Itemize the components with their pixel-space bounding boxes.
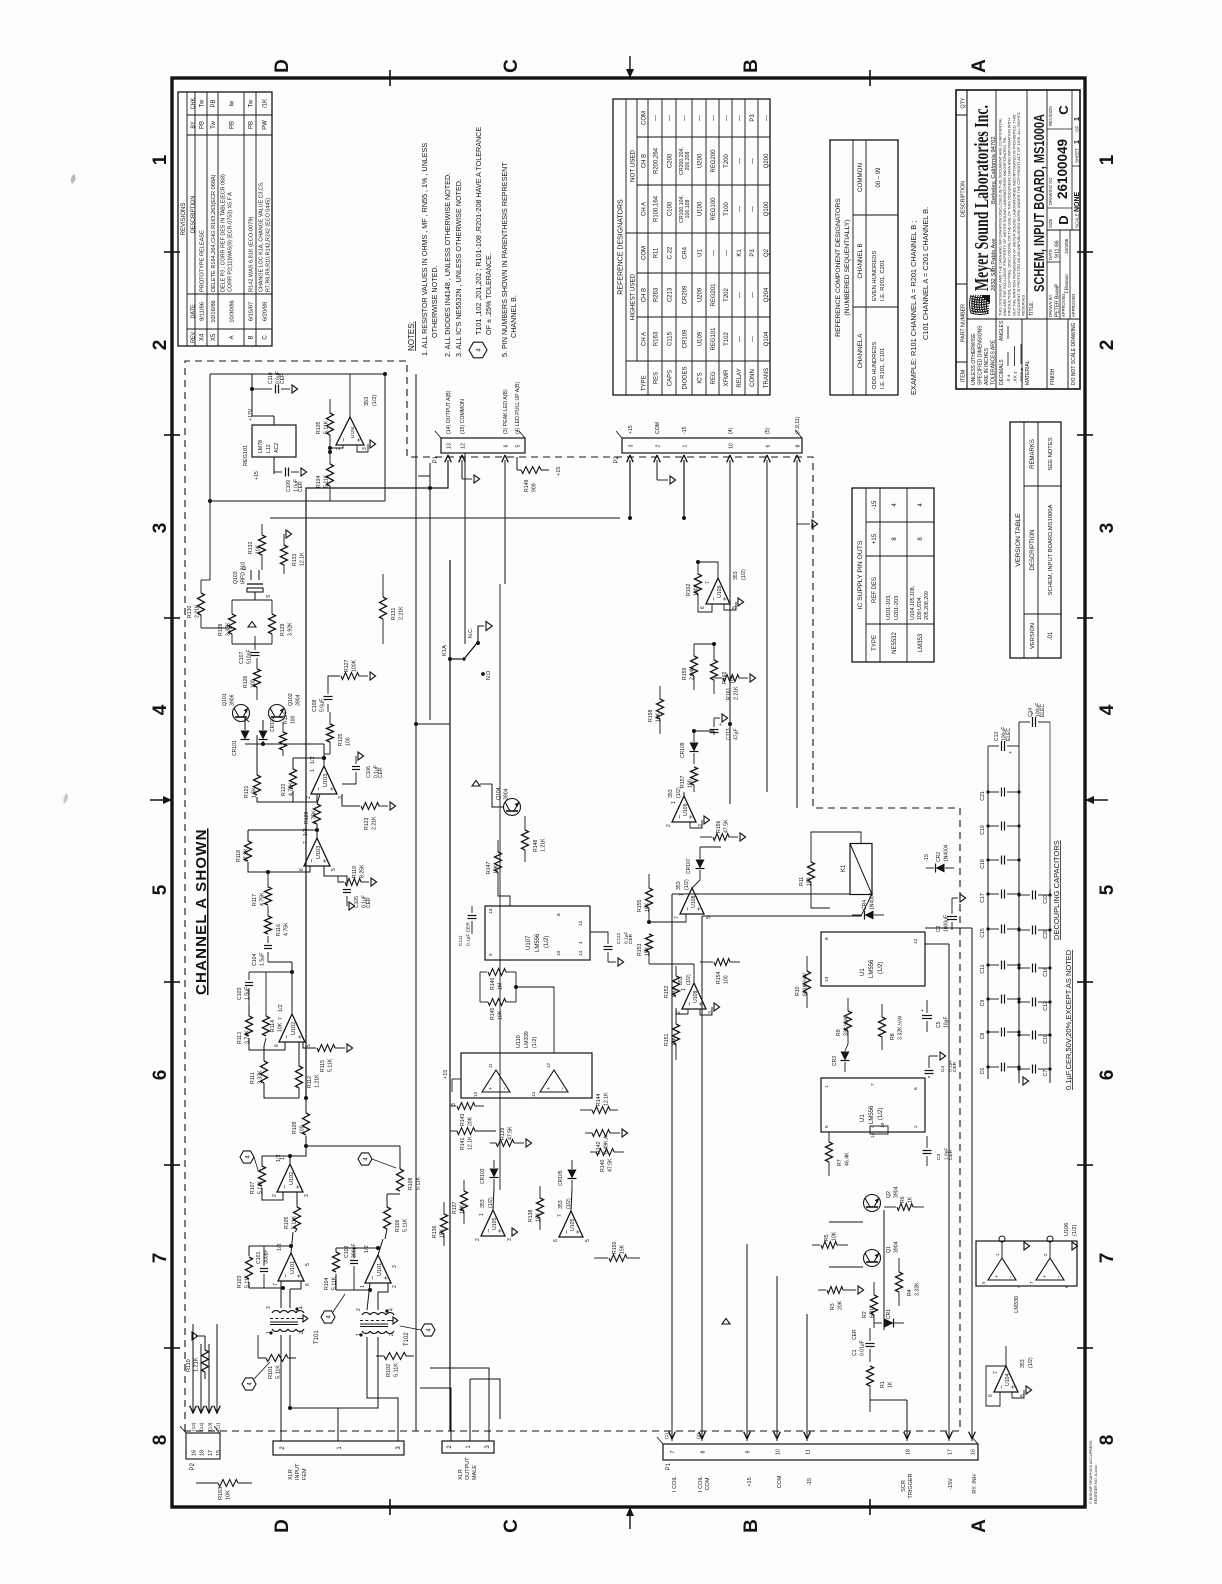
svg-text:C2: C2: [936, 925, 942, 932]
svg-text:1N4004: 1N4004: [944, 844, 950, 862]
svg-text:1/2: 1/2: [310, 756, 316, 764]
resistor R10: [804, 971, 811, 993]
wire K1A to bus: [416, 723, 450, 725]
svg-text:I COIL: I COIL: [698, 1476, 704, 1492]
svg-text:R11: R11: [654, 247, 660, 258]
diode CR101: [245, 757, 324, 759]
resistor R6: [884, 1206, 896, 1208]
resistor R126: [254, 669, 261, 687]
svg-text:T101: T101: [314, 1330, 320, 1344]
bus k1a: [449, 560, 451, 1431]
wire P1-6: [504, 460, 506, 584]
decoupling caps row 2: [1019, 1068, 1030, 1070]
svg-text:C101 CHANNEL A = C201 CHANNEL: C101 CHANNEL A = C201 CHANNEL B.: [921, 207, 930, 340]
output bus to P1-13: [306, 460, 448, 1098]
svg-text:(5): (5): [765, 427, 771, 434]
svg-text:R107: R107: [250, 1181, 256, 1194]
center arrow left: [629, 1507, 631, 1529]
svg-text:REORDER NO. A-xxxx: REORDER NO. A-xxxx: [1094, 1465, 1098, 1504]
svg-text:−: −: [284, 1035, 291, 1039]
svg-text:47.5K: 47.5K: [724, 819, 730, 833]
svg-text:—: —: [764, 115, 770, 121]
svg-text:EXAMPLE: R101 CHANNEL A = R: EXAMPLE: R101 CHANNEL A = R201 CHANNEL B…: [909, 221, 918, 395]
svg-text:1.21K: 1.21K: [315, 1074, 321, 1088]
svg-text:C: C: [501, 59, 522, 73]
svg-text:D: D: [1056, 215, 1071, 224]
svg-text:LM339: LM339: [524, 1031, 530, 1048]
svg-text:1: 1: [280, 1157, 286, 1160]
capacitor C102: [353, 1266, 355, 1290]
svg-text:C: C: [1056, 105, 1071, 115]
svg-text:18: 18: [906, 1449, 912, 1455]
svg-text:+: +: [575, 1230, 582, 1234]
connector P2 pins 15-18: [186, 1433, 220, 1459]
svg-text:D: D: [272, 1519, 293, 1533]
resistor R1: [867, 1366, 874, 1386]
wire p1-16 ry inh: [971, 928, 973, 1441]
svg-text:3904: 3904: [894, 1186, 900, 1198]
transistor Q103 mosfet: [247, 588, 263, 592]
reference component designators table: [830, 140, 898, 395]
svg-text:C5: C5: [936, 1021, 942, 1028]
svg-text:TOLERANCES ARE: TOLERANCES ARE: [991, 339, 997, 385]
wire P2-2 ground: [656, 460, 658, 480]
resistor R149: [521, 467, 541, 474]
svg-text:26100049: 26100049: [1055, 139, 1070, 199]
wire T102 sec to U101b: [367, 1283, 370, 1310]
svg-text:REFERENCE DESIGNATORS: REFERENCE DESIGNATORS: [618, 199, 625, 295]
wire p1-7 i coil: [671, 894, 673, 1441]
svg-text:13: 13: [488, 908, 494, 914]
supply rail box: [209, 374, 211, 501]
resistor R141: [457, 1128, 475, 1135]
svg-text:LM339: LM339: [1014, 1296, 1020, 1313]
svg-text:-15: -15: [872, 500, 878, 509]
svg-text:TRANS: TRANS: [764, 368, 770, 388]
svg-text:R115: R115: [320, 1060, 326, 1072]
svg-text:R156: R156: [716, 820, 722, 833]
svg-text:+: +: [696, 907, 703, 911]
svg-text:R4: R4: [907, 1289, 913, 1296]
svg-text:BY: BY: [191, 121, 197, 129]
svg-text:(1/2): (1/2): [741, 569, 747, 580]
svg-text:PART NUMBER: PART NUMBER: [961, 304, 967, 342]
svg-text:Q204: Q204: [764, 287, 770, 302]
svg-text:R151: R151: [664, 1033, 670, 1046]
capacitor C14: [1019, 721, 1030, 723]
svg-text:RELAY: RELAY: [737, 368, 743, 387]
wire U103a out: [323, 758, 325, 766]
svg-text:U1: U1: [860, 968, 866, 976]
resistor R137: [461, 1191, 468, 1211]
svg-text:B: B: [741, 1519, 762, 1533]
svg-text:PB: PB: [249, 121, 255, 129]
wire R159 junction: [694, 643, 714, 645]
svg-text:5: 5: [824, 1125, 830, 1128]
svg-text:© BISHOP GRAPHICS ACCUPRESS: © BISHOP GRAPHICS ACCUPRESS: [1089, 1440, 1093, 1504]
dashed channel boundary: [185, 361, 960, 1431]
diode CR2: [926, 867, 934, 869]
svg-text:FEM: FEM: [302, 1468, 308, 1480]
resistor R111: [261, 1061, 268, 1083]
svg-text:7: 7: [278, 1017, 284, 1020]
svg-text:8: 8: [701, 1450, 707, 1453]
wire p1-17 -15v: [948, 944, 950, 1441]
svg-text:6: 6: [988, 1394, 994, 1397]
svg-text:2: 2: [666, 824, 672, 827]
center arrow top: [150, 799, 172, 801]
svg-text:R133: R133: [292, 553, 298, 566]
svg-text:1000μF: 1000μF: [944, 915, 950, 932]
diode CR103: [494, 1164, 503, 1172]
svg-text:9/11/86: 9/11/86: [200, 302, 206, 321]
op-amp U109 b: [706, 578, 730, 604]
svg-text:+15: +15: [628, 425, 634, 434]
svg-text:/1K: /1K: [263, 99, 269, 108]
svg-text:5: 5: [1097, 884, 1118, 895]
resistor R115: [303, 1042, 316, 1048]
svg-text:6/20/88: 6/20/88: [263, 302, 269, 321]
svg-text:CR1: CR1: [886, 1309, 892, 1319]
svg-text:1.5K: 1.5K: [252, 787, 258, 798]
resistor R119: [338, 876, 344, 882]
svg-text:R138: R138: [528, 1209, 534, 1222]
resistor R134: [327, 464, 334, 486]
svg-text:CR209: CR209: [683, 285, 689, 304]
svg-text:R112: R112: [307, 1076, 313, 1088]
svg-text:6: 6: [700, 606, 706, 609]
svg-text:4: 4: [389, 1308, 395, 1311]
resistor R138: [537, 1198, 544, 1218]
svg-text:00 – 99: 00 – 99: [876, 167, 882, 188]
svg-text:5.11K: 5.11K: [245, 1274, 251, 1288]
svg-text:6.81K: 6.81K: [870, 1304, 876, 1318]
svg-text:DELETE R164,264,CHG R163,263(E: DELETE R164,264,CHG R163,263(ECR 068A): [211, 174, 217, 292]
resistor R157: [691, 767, 698, 785]
svg-text:PB: PB: [200, 121, 206, 129]
decoupling rail middle: [1018, 784, 1020, 1083]
svg-text:Q2: Q2: [764, 248, 770, 257]
svg-text:APPROVED: APPROVED: [1061, 294, 1066, 317]
svg-text:U104,105,108,: U104,105,108,: [910, 586, 916, 620]
svg-text:X5: X5: [211, 333, 217, 341]
capacitor C105: [324, 866, 347, 886]
svg-text:1.5μF: 1.5μF: [260, 953, 266, 966]
bus vertical right: [270, 517, 620, 519]
resistor R132: [259, 535, 266, 555]
svg-text:R127: R127: [344, 659, 350, 672]
svg-text:4: 4: [150, 704, 171, 715]
svg-text:CHANGE LOC K1A, CHANGE VALUE C: CHANGE LOC K1A, CHANGE VALUE C3,C5,: [259, 181, 265, 292]
hexagon tol T102: [421, 1324, 435, 1336]
svg-text:206,208: 206,208: [685, 152, 691, 171]
svg-text:DESCRIPTION: DESCRIPTION: [191, 196, 197, 234]
wire p1-10 com: [776, 1276, 778, 1441]
svg-text:(13): (13): [207, 1422, 213, 1431]
svg-text:SEE NOTES: SEE NOTES: [1048, 437, 1054, 470]
svg-text:R129: R129: [280, 623, 286, 636]
connector XLR INPUT FEM: [273, 1441, 404, 1455]
svg-text:CER: CER: [378, 767, 384, 778]
svg-text:3: 3: [150, 523, 171, 534]
svg-text:47.5K: 47.5K: [244, 848, 250, 862]
ic U110 LM339 box: [461, 1053, 592, 1098]
svg-text:Tw: Tw: [200, 99, 206, 107]
svg-text:(NUMBERED SEQUENTIALLY): (NUMBERED SEQUENTIALLY): [844, 219, 851, 315]
svg-text:(1/2): (1/2): [372, 395, 378, 406]
svg-text:U109: U109: [698, 331, 704, 346]
svg-text:5.11K: 5.11K: [324, 420, 330, 434]
svg-text:R125: R125: [338, 733, 344, 746]
capacitor C113: [694, 730, 714, 732]
svg-text:DESCRIPTION: DESCRIPTION: [1030, 529, 1036, 570]
svg-text:2: 2: [656, 444, 662, 447]
svg-text:−: −: [316, 787, 323, 791]
svg-text:C106: C106: [366, 766, 372, 778]
svg-text:13: 13: [447, 443, 453, 449]
svg-text:4: 4: [870, 1125, 876, 1128]
svg-text:2: 2: [392, 1285, 398, 1288]
svg-text:5.11K: 5.11K: [394, 1363, 400, 1377]
svg-text:Q104: Q104: [496, 787, 502, 800]
svg-text:REVISION: REVISION: [1048, 106, 1053, 126]
ic U106 LM339 box: [976, 1241, 1077, 1286]
resistor R142: [592, 1130, 610, 1137]
svg-text:R11: R11: [799, 877, 805, 886]
size / drawing no / revision row: [1047, 229, 1080, 231]
junction dot p1-13: [428, 486, 432, 490]
svg-text:6: 6: [305, 1283, 311, 1286]
wire P2-10 bus: [729, 460, 731, 804]
svg-text:—: —: [750, 292, 756, 298]
svg-text:−: −: [370, 1276, 377, 1280]
svg-text:CR2: CR2: [936, 852, 942, 862]
svg-text:+: +: [958, 909, 964, 912]
decoupling ground: [1023, 1077, 1029, 1085]
svg-text:OUTPUT: OUTPUT: [465, 1457, 471, 1480]
svg-text:5.11K: 5.11K: [328, 1058, 334, 1072]
svg-text:10: 10: [556, 950, 562, 956]
scan smudge 1: [71, 174, 76, 184]
svg-text:1: 1: [1097, 154, 1118, 165]
wire P2-1: [683, 460, 685, 518]
svg-text:7: 7: [674, 916, 680, 919]
svg-text:C105: C105: [354, 896, 360, 908]
svg-text:DATE: DATE: [191, 304, 197, 319]
svg-text:C7: C7: [1043, 1070, 1049, 1077]
svg-text:—: —: [698, 115, 704, 121]
svg-text:R162: R162: [686, 583, 692, 596]
svg-text:CR4: CR4: [683, 246, 689, 259]
resistor R109: [303, 1113, 310, 1135]
svg-text:5: 5: [585, 1239, 591, 1242]
resistor R144: [580, 1109, 592, 1111]
svg-text:7: 7: [870, 1083, 876, 1086]
svg-text:C3: C3: [936, 1154, 942, 1160]
svg-text:3.74K: 3.74K: [245, 1030, 251, 1044]
svg-text:332,½W: 332,½W: [843, 1017, 850, 1036]
svg-text:1: 1: [824, 1085, 830, 1088]
title block outer box: [956, 90, 1080, 389]
svg-text:R117: R117: [252, 894, 258, 906]
svg-text:C21: C21: [980, 791, 986, 801]
svg-text:Meyer Sound Laboratories Inc.: Meyer Sound Laboratories Inc.: [971, 105, 993, 291]
svg-text:15K: 15K: [620, 1244, 626, 1254]
svg-text:+15: +15: [747, 1477, 753, 1486]
svg-text:Tw: Tw: [249, 99, 255, 107]
svg-text:3: 3: [629, 444, 635, 447]
svg-text:17: 17: [948, 1449, 954, 1455]
svg-text:K1: K1: [841, 864, 847, 872]
resistor R112: [296, 1066, 303, 1088]
op-amp U101 b: [365, 1255, 391, 1283]
op-amp U101 a: [278, 1253, 304, 1281]
svg-text:TRIGGER: TRIGGER: [908, 1473, 914, 1498]
svg-text:C200: C200: [668, 153, 674, 168]
svg-text:47μF: 47μF: [734, 729, 740, 741]
svg-text:Q2: Q2: [886, 1191, 892, 1198]
comparator U106 a: [988, 1258, 1016, 1280]
svg-text:U1: U1: [860, 1114, 866, 1122]
svg-text:3: 3: [362, 447, 368, 450]
svg-text:5.11K: 5.11K: [276, 1365, 282, 1379]
svg-text:C110: C110: [268, 372, 274, 384]
resistor R117: [267, 906, 269, 916]
svg-text:46.4K: 46.4K: [845, 1152, 851, 1166]
svg-text:R163: R163: [218, 1487, 224, 1500]
svg-text:C13: C13: [994, 732, 1000, 741]
wire p1-11 -15: [806, 1314, 808, 1441]
capacitor C101: [263, 1274, 265, 1288]
ic supply pin outs table: [852, 488, 934, 662]
resistor R162 feedback: [695, 574, 702, 594]
svg-text:LM556: LM556: [869, 959, 875, 978]
svg-text:R158: R158: [648, 709, 654, 722]
svg-text:—: —: [750, 158, 756, 164]
svg-text:5: 5: [150, 884, 171, 895]
svg-text:R102: R102: [386, 1364, 392, 1377]
svg-text:U103: U103: [316, 846, 322, 859]
svg-text:R145: R145: [490, 1007, 496, 1020]
svg-text:P2: P2: [614, 455, 620, 463]
svg-text:10K: 10K: [536, 1212, 542, 1222]
capacitor C108: [327, 704, 329, 712]
svg-text:T102: T102: [404, 1332, 410, 1346]
svg-text:(1/2): (1/2): [544, 936, 550, 948]
svg-text:(1/2): (1/2): [676, 787, 682, 798]
svg-text:C18: C18: [980, 859, 986, 869]
svg-text:20K: 20K: [838, 1300, 844, 1310]
svg-text:U201-203: U201-203: [894, 596, 900, 620]
svg-text:14: 14: [531, 1091, 536, 1097]
resistor R123: [342, 794, 360, 806]
svg-text:3. ALL IC'S NE5532N , UNLE: 3. ALL IC'S NE5532N , UNLESS OTHERWISE N…: [454, 179, 463, 357]
zone tick marks bottom edge: [1077, 1347, 1093, 1349]
svg-text:R157: R157: [680, 775, 686, 788]
svg-text:UNLESS OTHERWISE: UNLESS OTHERWISE: [971, 333, 977, 385]
svg-text:R120: R120: [304, 811, 310, 824]
diode CR1: [874, 1322, 882, 1324]
resistor R131: [380, 597, 387, 619]
svg-text:1/2: 1/2: [303, 828, 309, 836]
comparator U110 a: [482, 1070, 510, 1092]
svg-text:3: 3: [698, 824, 704, 827]
bus common: [415, 374, 417, 1431]
svg-text:T.Bxxman: T.Bxxman: [1065, 274, 1070, 294]
diode CR107: [696, 860, 705, 869]
svg-text:B: B: [741, 59, 762, 73]
svg-text:D: D: [242, 566, 248, 570]
svg-text:REFERENCE COMPONENT DESIGNAT: REFERENCE COMPONENT DESIGNATORS: [835, 198, 842, 337]
resistor R116: [265, 916, 272, 934]
svg-text:CR103: CR103: [480, 1168, 486, 1184]
svg-text:DESCRIPTION: DESCRIPTION: [961, 181, 967, 217]
svg-text:ITEM: ITEM: [961, 370, 967, 383]
svg-text:U105: U105: [492, 1217, 498, 1230]
op-amp U108 a: [680, 888, 704, 914]
svg-text:—: —: [737, 206, 743, 212]
center arrow right: [629, 56, 631, 78]
svg-text:(7,9,11): (7,9,11): [795, 416, 801, 434]
svg-text:1: 1: [360, 1285, 366, 1288]
wire filter in: [299, 1097, 306, 1099]
svg-text:R140: R140: [600, 1159, 606, 1172]
svg-text:12: 12: [578, 920, 584, 926]
svg-text:C20: C20: [1043, 929, 1049, 939]
svg-text:2: 2: [150, 340, 171, 351]
resistor R155: [646, 888, 653, 908]
svg-text:U102: U102: [291, 1022, 297, 1035]
svg-text:REF DES: REF DES: [872, 577, 878, 603]
svg-text:8: 8: [150, 1435, 171, 1446]
op-amp U104 a: [336, 417, 364, 445]
svg-text:+: +: [322, 859, 329, 863]
svg-text:C103: C103: [237, 987, 243, 1000]
svg-text:P3: P3: [750, 114, 756, 122]
svg-text:SCALE: SCALE: [1075, 213, 1080, 228]
svg-text:CER: CER: [298, 481, 304, 492]
svg-text:1: 1: [671, 801, 677, 804]
svg-text:C102: C102: [344, 1245, 350, 1258]
svg-text:4.75K: 4.75K: [284, 922, 290, 936]
svg-text:6: 6: [1097, 1070, 1118, 1081]
svg-text:R137: R137: [452, 1201, 458, 1214]
svg-text:9/11 /86: 9/11 /86: [1055, 240, 1061, 258]
connector P1 lower: [663, 1444, 978, 1460]
svg-text:LM556: LM556: [869, 1105, 875, 1124]
svg-text:R130: R130: [187, 605, 193, 618]
svg-text:10K: 10K: [645, 902, 651, 912]
resistor R151: [673, 1024, 680, 1044]
svg-text:+: +: [296, 1274, 303, 1278]
svg-text:300pF: 300pF: [264, 1249, 270, 1264]
svg-text:1: 1: [356, 1333, 362, 1336]
svg-text:NONE: NONE: [1074, 191, 1081, 212]
op-amp U109 a: [672, 796, 696, 822]
resistor R124: [280, 732, 287, 750]
svg-text:N.C.: N.C.: [468, 628, 474, 638]
svg-text:—: —: [750, 206, 756, 212]
resistor R106: [384, 1207, 391, 1229]
svg-text:PW: PW: [263, 120, 269, 130]
svg-text:C12: C12: [1043, 1001, 1049, 1011]
svg-text:5: 5: [732, 606, 738, 609]
wire K1 coil: [861, 893, 870, 895]
svg-text:TITLE:: TITLE:: [1029, 301, 1035, 316]
svg-text:6: 6: [299, 868, 305, 871]
svg-text:R114: R114: [270, 1020, 276, 1032]
resistor R130: [198, 593, 205, 615]
